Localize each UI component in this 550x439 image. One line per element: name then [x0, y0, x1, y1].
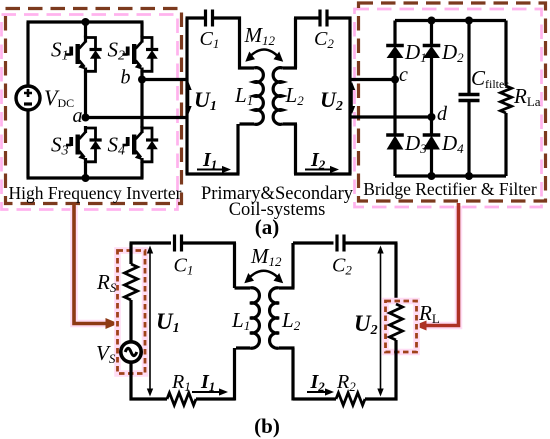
dashed box around RL [386, 301, 417, 352]
red arrow pink glow (left) [74, 206, 110, 324]
wire: VDC top to top rail [26, 22, 29, 86]
dashed boundary: High Frequency Inverter box [6, 9, 182, 204]
wire: R2 to right corner [365, 397, 398, 400]
svg-text:(a): (a) [255, 215, 280, 239]
coil L1 [254, 68, 263, 125]
wire: S2 to node b [140, 71, 143, 79]
diode D3 [386, 133, 404, 136]
coil L2 [273, 68, 282, 125]
wire: RLa leg [504, 21, 507, 177]
transistor S2 [123, 36, 159, 73]
wire: C1 to coil branch [182, 243, 251, 288]
resistor Rs [125, 264, 138, 300]
junction dots top rail [428, 17, 436, 25]
wire: S1 to node a [84, 71, 87, 117]
mutual coupling arrow [248, 50, 280, 59]
capacitor C2 (b) [337, 235, 344, 252]
diode D2 [423, 44, 441, 47]
svg-text:d: d [437, 103, 448, 125]
wire: right leg top rail to S2 [140, 22, 143, 38]
wire: secondary loop top right + right side [327, 17, 352, 175]
coil L1 (b) [250, 288, 259, 348]
dashed boundary: Bridge Rectifier & Filter box [359, 3, 546, 201]
red annotation arrow from rectifier to RL box [426, 203, 459, 326]
junction dots bottom rail [428, 172, 436, 180]
current arrow I2 (b) [307, 391, 325, 393]
wire: Cfilter leg [467, 21, 470, 177]
node a [82, 114, 90, 122]
svg-text:(b): (b) [254, 414, 280, 438]
transistor S4 [123, 126, 159, 163]
wire: inverter bottom rail [27, 176, 144, 179]
resistor RL [390, 304, 403, 340]
wire: (b) top left [130, 241, 172, 244]
wire: Vs to bottom [129, 362, 132, 401]
wire: secondary to node c [350, 78, 395, 81]
wire: L1 bottom to loop bottom [186, 124, 255, 174]
wire: node a to primary loop [86, 116, 188, 119]
wire: secondary to node d [350, 115, 432, 118]
wire: node b to primary loop [142, 78, 187, 81]
wire: primary loop top right [213, 18, 255, 68]
wire: S4 to bottom rail [140, 162, 143, 178]
wire: left leg top rail to S1 [84, 22, 87, 38]
voltage arrow U1 (b) [149, 254, 151, 389]
transistor S1 [66, 36, 102, 73]
capacitor C2 [320, 10, 327, 27]
resistor R1 [167, 393, 196, 405]
wire: RL to bottom right corner [394, 340, 397, 401]
wire: (b) bottom left [130, 397, 168, 400]
wire: L1 bottom branch (b) [235, 348, 251, 401]
wire: L2 bottom to loop bottom [283, 124, 352, 174]
red arrow pink glow (right) [426, 206, 459, 326]
wire: S3 to bottom rail [84, 162, 87, 178]
node d [428, 113, 436, 121]
svg-text:b: b [121, 67, 131, 89]
wire: inverter top rail [27, 20, 144, 23]
current arrow I1 (b) [192, 391, 219, 393]
wire: Rs to Vs [129, 300, 132, 342]
transistor S3 [66, 126, 102, 163]
source VDC [16, 86, 40, 110]
wire: primary loop top left [186, 16, 206, 19]
voltage arrow U2 [351, 90, 353, 106]
junction on bottom rail [82, 174, 90, 182]
wire: secondary loop top [283, 18, 321, 68]
wire: R1 to coil branch [196, 397, 235, 400]
wire: rectifier top rail [395, 19, 506, 22]
svg-text:Bridge Rectifier & Filter: Bridge Rectifier & Filter [363, 179, 537, 199]
pink glow around RL box [386, 301, 417, 352]
capacitor C1 [206, 10, 213, 27]
dashed boundary: High Frequency Inverter box (pink offset copy) [2, 15, 178, 210]
dashed box around Rs and Vs [118, 251, 146, 374]
wire: rectifier bottom rail [395, 174, 506, 177]
red annotation arrow from inverter to Rs/Vs box [74, 204, 108, 324]
wire: L2 top branch (b) [279, 243, 334, 288]
svg-text:c: c [399, 64, 408, 86]
pink glow around Rs/Vs box [118, 251, 146, 374]
source Vs [121, 342, 141, 362]
capacitor C1 (b) [175, 235, 182, 252]
diode D4 [423, 133, 441, 136]
node c [391, 76, 399, 84]
voltage arrow U2 (b) [380, 254, 382, 389]
wire: rectifier leg1 (D1/D3) [393, 21, 396, 177]
dashed boundary: Bridge Rectifier & Filter box (pink offset copy) [355, 9, 542, 207]
coil L2 (b) [270, 288, 279, 348]
wire: primary loop left side [185, 18, 188, 174]
resistor R2 [336, 393, 365, 405]
wire: L2 bottom branch (b) [279, 348, 336, 401]
current arrow I1 [197, 169, 222, 171]
voltage arrow U1 [188, 90, 190, 106]
wire: (b) left side top [129, 243, 132, 264]
mutual coupling arrow (b) [247, 271, 281, 280]
resistor RLa [501, 86, 512, 113]
wire: VDC bottom to bottom rail [26, 110, 29, 178]
node b [138, 76, 146, 84]
wire: node b down to S4 [140, 80, 143, 129]
diode D1 [386, 44, 404, 47]
capacitor Cfilter [459, 95, 480, 101]
current arrow I2 [305, 169, 330, 171]
junction on top rail [82, 18, 90, 26]
svg-text:High Frequency Inverter: High Frequency Inverter [9, 183, 182, 203]
wire: rectifier leg2 (D2/D4) [430, 21, 433, 177]
wire: C2 to right side (b) [344, 243, 398, 304]
svg-text:a: a [73, 105, 83, 127]
